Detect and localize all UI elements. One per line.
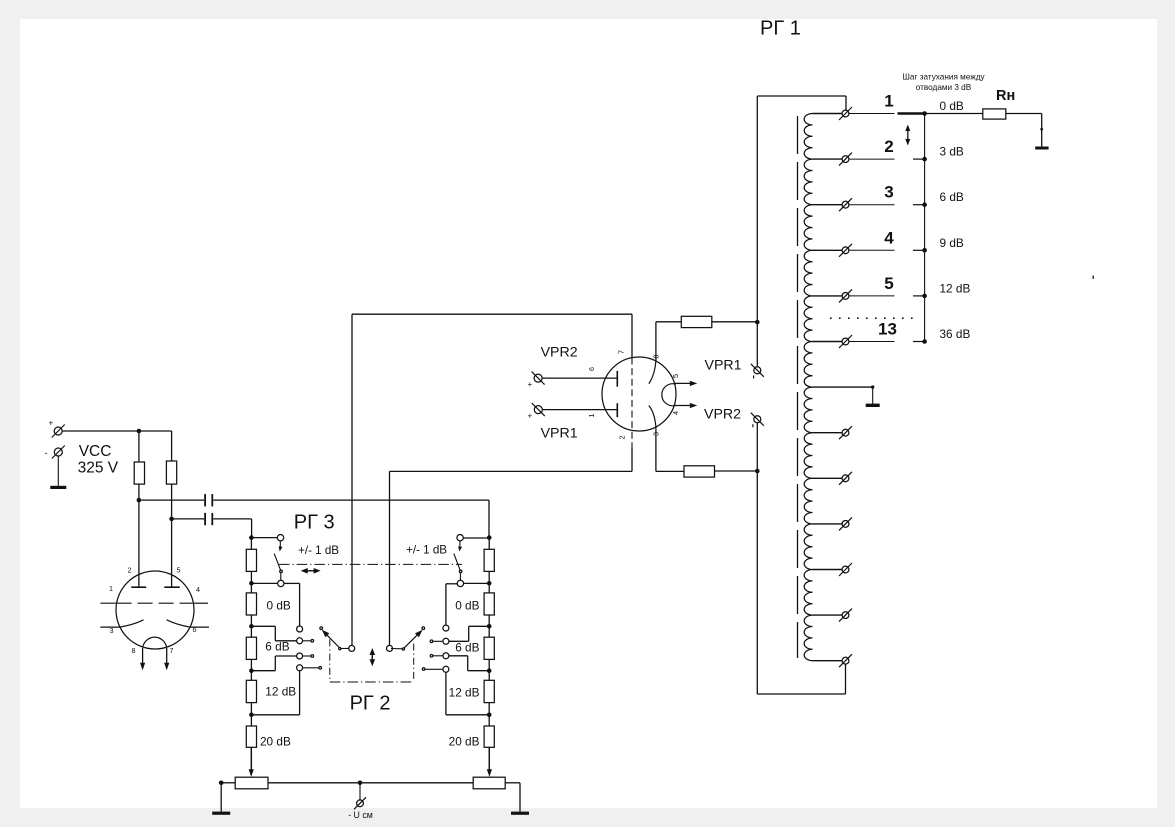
label right 20 dB (449, 735, 480, 749)
wire bus to Rн (925, 113, 983, 115)
label VPR2 (input) (541, 345, 578, 361)
РГ2 left wiper (322, 630, 355, 652)
tube U2 pin numbers (587, 350, 680, 440)
svg-text:РГ 2: РГ 2 (350, 693, 391, 715)
wire left 6dB contact (251, 626, 296, 641)
svg-text:0 dB: 0 dB (267, 599, 291, 613)
svg-text:6 dB: 6 dB (940, 190, 964, 204)
label left 0 dB (267, 599, 291, 613)
svg-text:Rн: Rн (996, 88, 1015, 104)
svg-text:5: 5 (671, 374, 680, 378)
terminal VPR2 input (+) (528, 372, 545, 389)
tube U2 grid line (dashed, pins 7-2) (631, 358, 633, 449)
svg-text:13: 13 (878, 320, 897, 339)
attenuation label 0 dB (940, 99, 964, 113)
РГ3 travel arrow (left-right) (301, 568, 321, 574)
node plate-VPR2 / РГ1 bottom (755, 469, 760, 474)
wire left pot to ground (219, 781, 235, 812)
РГ1 wiper contact (selected tap 1, heavy segment) (898, 112, 925, 115)
switch РГ3 left (+/- 1 dB) (251, 535, 284, 587)
resistor right 0 dB (484, 593, 494, 615)
resistor left 12 dB (246, 680, 256, 702)
svg-text:6 dB: 6 dB (265, 640, 289, 654)
РГ2 right contact bank (422, 625, 449, 672)
tube U1 envelope (116, 571, 194, 649)
svg-text:РГ 1: РГ 1 (760, 18, 801, 40)
wire right pot to ground (505, 783, 520, 812)
tube U1 cathode lead pin 7 (arrow down) (164, 648, 169, 670)
terminal VPR2 (output) (751, 413, 764, 428)
svg-text:8: 8 (132, 646, 136, 655)
label left 6 dB (265, 640, 289, 654)
resistor left 6 dB (246, 637, 256, 659)
wire grid loop (pin 7 to left РГ2 wiper) (352, 314, 632, 645)
tube U1 grid line (dashed, pins 1-4) (100, 602, 208, 604)
wire РГ3 left to 0dB contact (284, 583, 300, 626)
svg-text:VPR1: VPR1 (541, 426, 578, 442)
tube U2 grid bar lower (pin 1) (542, 403, 617, 417)
svg-text:6: 6 (193, 625, 197, 634)
tube U1 pin numbers (109, 566, 200, 656)
tube U2 plate lower (pin 3) (649, 406, 656, 472)
wire right 6dB contact (449, 626, 489, 641)
node coupling cap 2 (169, 517, 174, 522)
tube U1 plate bar right (pin 5) (164, 586, 180, 588)
tap number label 3 (884, 183, 893, 202)
svg-text:0 dB: 0 dB (455, 599, 479, 613)
label 325 V (78, 459, 119, 476)
wire to capacitor C1 (139, 499, 204, 501)
attenuation label 9 dB (940, 236, 964, 250)
wire right 12dB contact (449, 656, 489, 671)
svg-text:+: + (528, 412, 533, 421)
svg-text:РГ 3: РГ 3 (294, 512, 335, 534)
svg-text:-: - (45, 448, 48, 458)
svg-text:325 V: 325 V (78, 459, 119, 476)
svg-text:VPR2: VPR2 (704, 407, 741, 423)
svg-text:12 dB: 12 dB (449, 686, 480, 700)
attenuation label 36 dB (940, 327, 971, 341)
svg-text:4: 4 (671, 411, 680, 415)
resistor left 20 dB (246, 726, 256, 747)
tube U1 heater loop (143, 637, 167, 647)
lower tap terminal (813, 472, 853, 485)
wire left 12dB contact (251, 656, 296, 671)
svg-text:отводами 3 dB: отводами 3 dB (916, 83, 972, 92)
svg-text:VPR2: VPR2 (541, 345, 578, 361)
lower tap terminal (813, 609, 853, 622)
label VPR2 (output) (704, 407, 741, 423)
tube U2 cathode loop (662, 384, 676, 406)
svg-text:1: 1 (587, 414, 596, 418)
wire pin8 to plate resistor (656, 321, 681, 323)
resistor right 20 dB (484, 726, 494, 747)
node B+ left (137, 429, 142, 434)
tap number label 4 (884, 228, 894, 247)
svg-text:4: 4 (196, 585, 200, 594)
right pot wiper arrow (487, 747, 492, 777)
terminal VCC - (45, 446, 65, 459)
РГ3 gang linkage (dash-dot) (279, 563, 462, 565)
tap number label 2 (884, 137, 893, 156)
resistor left 1 dB (246, 549, 256, 571)
wire pin7 up to loop (631, 314, 633, 357)
lower tap terminal (813, 426, 853, 439)
tap number label 13 (878, 320, 897, 339)
node coupling cap 1 (137, 498, 142, 503)
label right 0 dB (455, 599, 479, 613)
svg-text:12 dB: 12 dB (265, 685, 296, 699)
stray mark (1092, 276, 1094, 280)
tap 3 terminal and wire (813, 198, 927, 211)
resistor plate load right (166, 461, 176, 484)
label right 12 dB (449, 686, 480, 700)
resistor left 0 dB (246, 593, 256, 615)
svg-text:3 dB: 3 dB (940, 145, 964, 159)
tube U2 grid bar upper (pin 6) (542, 371, 617, 387)
wire B+ rail (62, 431, 171, 462)
label VCC (79, 443, 112, 460)
tube U2 plate upper (pin 8) (649, 322, 656, 384)
ground tap wire (813, 385, 875, 388)
capacitor C2 (205, 513, 212, 525)
svg-text:2: 2 (618, 436, 627, 440)
svg-text:VPR1: VPR1 (705, 358, 742, 374)
node -Uсм (358, 781, 363, 786)
ground (transformer center tap) (866, 387, 880, 407)
svg-text:36 dB: 36 dB (940, 327, 971, 341)
svg-text:2: 2 (884, 137, 893, 156)
resistor plate load left (134, 462, 144, 484)
wire to capacitor C2 (172, 518, 205, 520)
attenuation label 3 dB (940, 145, 964, 159)
РГ2 right wiper (387, 630, 423, 652)
label VPR1 (output) (705, 358, 742, 374)
terminal VPR1 input (+) (528, 403, 545, 420)
label +/- 1 dB left (298, 544, 339, 557)
label - U см (348, 810, 373, 820)
wire right 20dB contact (446, 672, 489, 715)
tube U1 cathode arc left (pin 3) (100, 620, 143, 627)
tube U1 cathode arc right (pin 6) (167, 620, 209, 627)
lower tap terminal (813, 563, 853, 576)
tube U2 envelope (602, 357, 676, 431)
wire bottom rail between pots (268, 782, 473, 784)
label РГ 1 (760, 18, 801, 40)
РГ2 travel arrow (up-down) (370, 648, 376, 666)
tube U1 plate bar left (pin 2) (131, 586, 146, 588)
svg-text:3: 3 (110, 626, 114, 635)
resistor right 6 dB (484, 637, 494, 659)
svg-text:- U см: - U см (348, 810, 373, 820)
label left 20 dB (260, 735, 291, 749)
resistor plate VPR1 (681, 316, 712, 327)
resistor right 1 dB (484, 549, 494, 571)
tap 4 terminal and wire (813, 244, 927, 257)
tube U2 cathode arrow pin 4 (675, 403, 698, 408)
left pot wiper arrow (249, 747, 254, 777)
resistor plate VPR2 (684, 466, 715, 477)
lower tap terminal (813, 517, 853, 530)
attenuation label 6 dB (940, 190, 964, 204)
svg-text:VCC: VCC (79, 443, 112, 460)
svg-text:3: 3 (884, 183, 893, 202)
label РГ 3 (294, 512, 335, 534)
РГ2 gang boundary (dash-dot box) (330, 639, 414, 682)
svg-text:0 dB: 0 dB (940, 99, 964, 113)
wire РГ3 right to 0dB contact (446, 584, 457, 625)
attenuation label 12 dB (940, 281, 971, 295)
transformer core (dashed) (797, 116, 799, 658)
resistor right 12 dB (484, 680, 494, 702)
left ladder rail and nodes (249, 535, 254, 771)
wire tap1 top feed (from plate VPR1 junction up and over to tap 1) (757, 96, 846, 367)
wire left 20dB contact (251, 671, 299, 715)
tap 1 terminal and wire (813, 107, 927, 120)
svg-text:4: 4 (884, 228, 894, 247)
tap 2 terminal and wire (813, 153, 927, 166)
tube U1 cathode lead pin 8 (arrow down) (140, 648, 145, 670)
wire pin3 to lower plate resistor (656, 470, 684, 472)
label РГ 2 (350, 693, 391, 715)
label left 12 dB (265, 685, 296, 699)
tap 13 terminal and wire (813, 335, 927, 348)
РГ2 left contact bank (297, 626, 323, 671)
svg-text:5: 5 (177, 566, 181, 575)
resistor Rн (983, 109, 1006, 119)
wire C1 to right РГ3 (213, 500, 489, 536)
svg-text:+/- 1 dB: +/- 1 dB (406, 543, 447, 556)
potentiometer left (235, 777, 268, 789)
svg-text:20 dB: 20 dB (260, 735, 291, 749)
svg-text:7: 7 (170, 646, 174, 655)
svg-text:+/- 1 dB: +/- 1 dB (298, 544, 339, 557)
svg-text:3: 3 (652, 432, 661, 436)
svg-text:+: + (528, 380, 533, 389)
output bus of РГ1 (924, 114, 926, 342)
svg-text:7: 7 (617, 350, 626, 354)
svg-text:Шаг затухания между: Шаг затухания между (902, 73, 985, 82)
terminal VCC + (49, 419, 65, 438)
svg-text:5: 5 (884, 274, 893, 293)
tap number label 1 (884, 92, 893, 111)
wire left resistor to plate pin2 (138, 484, 140, 587)
terminal VPR1 (output) (751, 364, 764, 379)
wire plate resistor to РГ1 node (712, 321, 758, 323)
node plate-VPR1 / РГ1 top (755, 320, 760, 325)
svg-text:20 dB: 20 dB (449, 735, 480, 749)
note: Шаг затухания между отводами 3 dB (902, 73, 985, 93)
wire lower plate resistor to РГ1 node (715, 470, 758, 472)
svg-text:1: 1 (109, 584, 113, 593)
ground (VCC minus) (50, 456, 66, 489)
svg-text:12 dB: 12 dB (940, 281, 971, 295)
terminal -Uсм (354, 783, 366, 810)
label +/- 1 dB right (406, 543, 447, 556)
wire C2 to left РГ3 (213, 519, 251, 536)
dotted continuation between tap 5 and tap 13 (830, 317, 920, 319)
capacitor C1 (205, 494, 212, 506)
right ladder rail and nodes (487, 535, 492, 771)
svg-text:8: 8 (652, 355, 661, 359)
svg-text:6 dB: 6 dB (455, 641, 479, 655)
lower tap terminal (813, 654, 853, 667)
tap 5 terminal and wire (813, 289, 927, 302)
tap number label 5 (884, 274, 893, 293)
autotransformer winding РГ1 (tapped volume control coil) (804, 114, 812, 661)
svg-text:9 dB: 9 dB (940, 236, 964, 250)
label right 6 dB (455, 641, 479, 655)
svg-text:1: 1 (884, 92, 893, 111)
label Rн (996, 88, 1015, 104)
wire pin2 down to right РГ2 wiper (390, 448, 633, 645)
ground (right pot) (511, 812, 529, 815)
label VPR1 (input) (541, 426, 578, 442)
tube U2 cathode arrow pin 5 (675, 381, 698, 386)
svg-text:2: 2 (128, 566, 132, 575)
ground (left pot) (212, 812, 230, 815)
svg-text:+: + (49, 419, 54, 428)
wire bottom coil end loop (plate VPR2 down to winding bottom) (757, 423, 845, 694)
wire Rн to ground (1006, 114, 1043, 147)
potentiometer right (473, 777, 505, 789)
svg-text:6: 6 (587, 367, 596, 371)
wire right resistor to plate pin5 (171, 484, 173, 587)
ground (Rн return) (1035, 147, 1048, 150)
switch РГ3 right (+/- 1 dB) (454, 535, 489, 587)
РГ1 wiper travel arrow (up-down) (905, 125, 910, 146)
